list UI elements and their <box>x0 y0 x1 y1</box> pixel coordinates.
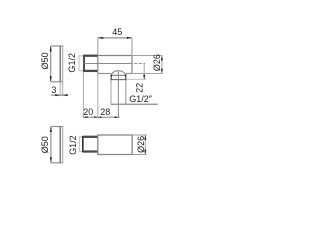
svg-text:22: 22 <box>135 83 145 93</box>
svg-text:Ø50: Ø50 <box>40 52 50 69</box>
svg-text:3: 3 <box>51 85 56 95</box>
svg-text:G1/2″: G1/2″ <box>129 94 153 104</box>
svg-text:45: 45 <box>112 27 122 37</box>
svg-text:G1/2: G1/2 <box>67 53 77 73</box>
svg-text:G1/2: G1/2 <box>68 135 78 155</box>
svg-text:Ø50: Ø50 <box>40 136 50 153</box>
svg-text:20: 20 <box>83 107 93 117</box>
svg-text:Ø26: Ø26 <box>152 54 162 71</box>
svg-text:Ø26: Ø26 <box>136 136 146 153</box>
svg-text:28: 28 <box>100 107 110 117</box>
